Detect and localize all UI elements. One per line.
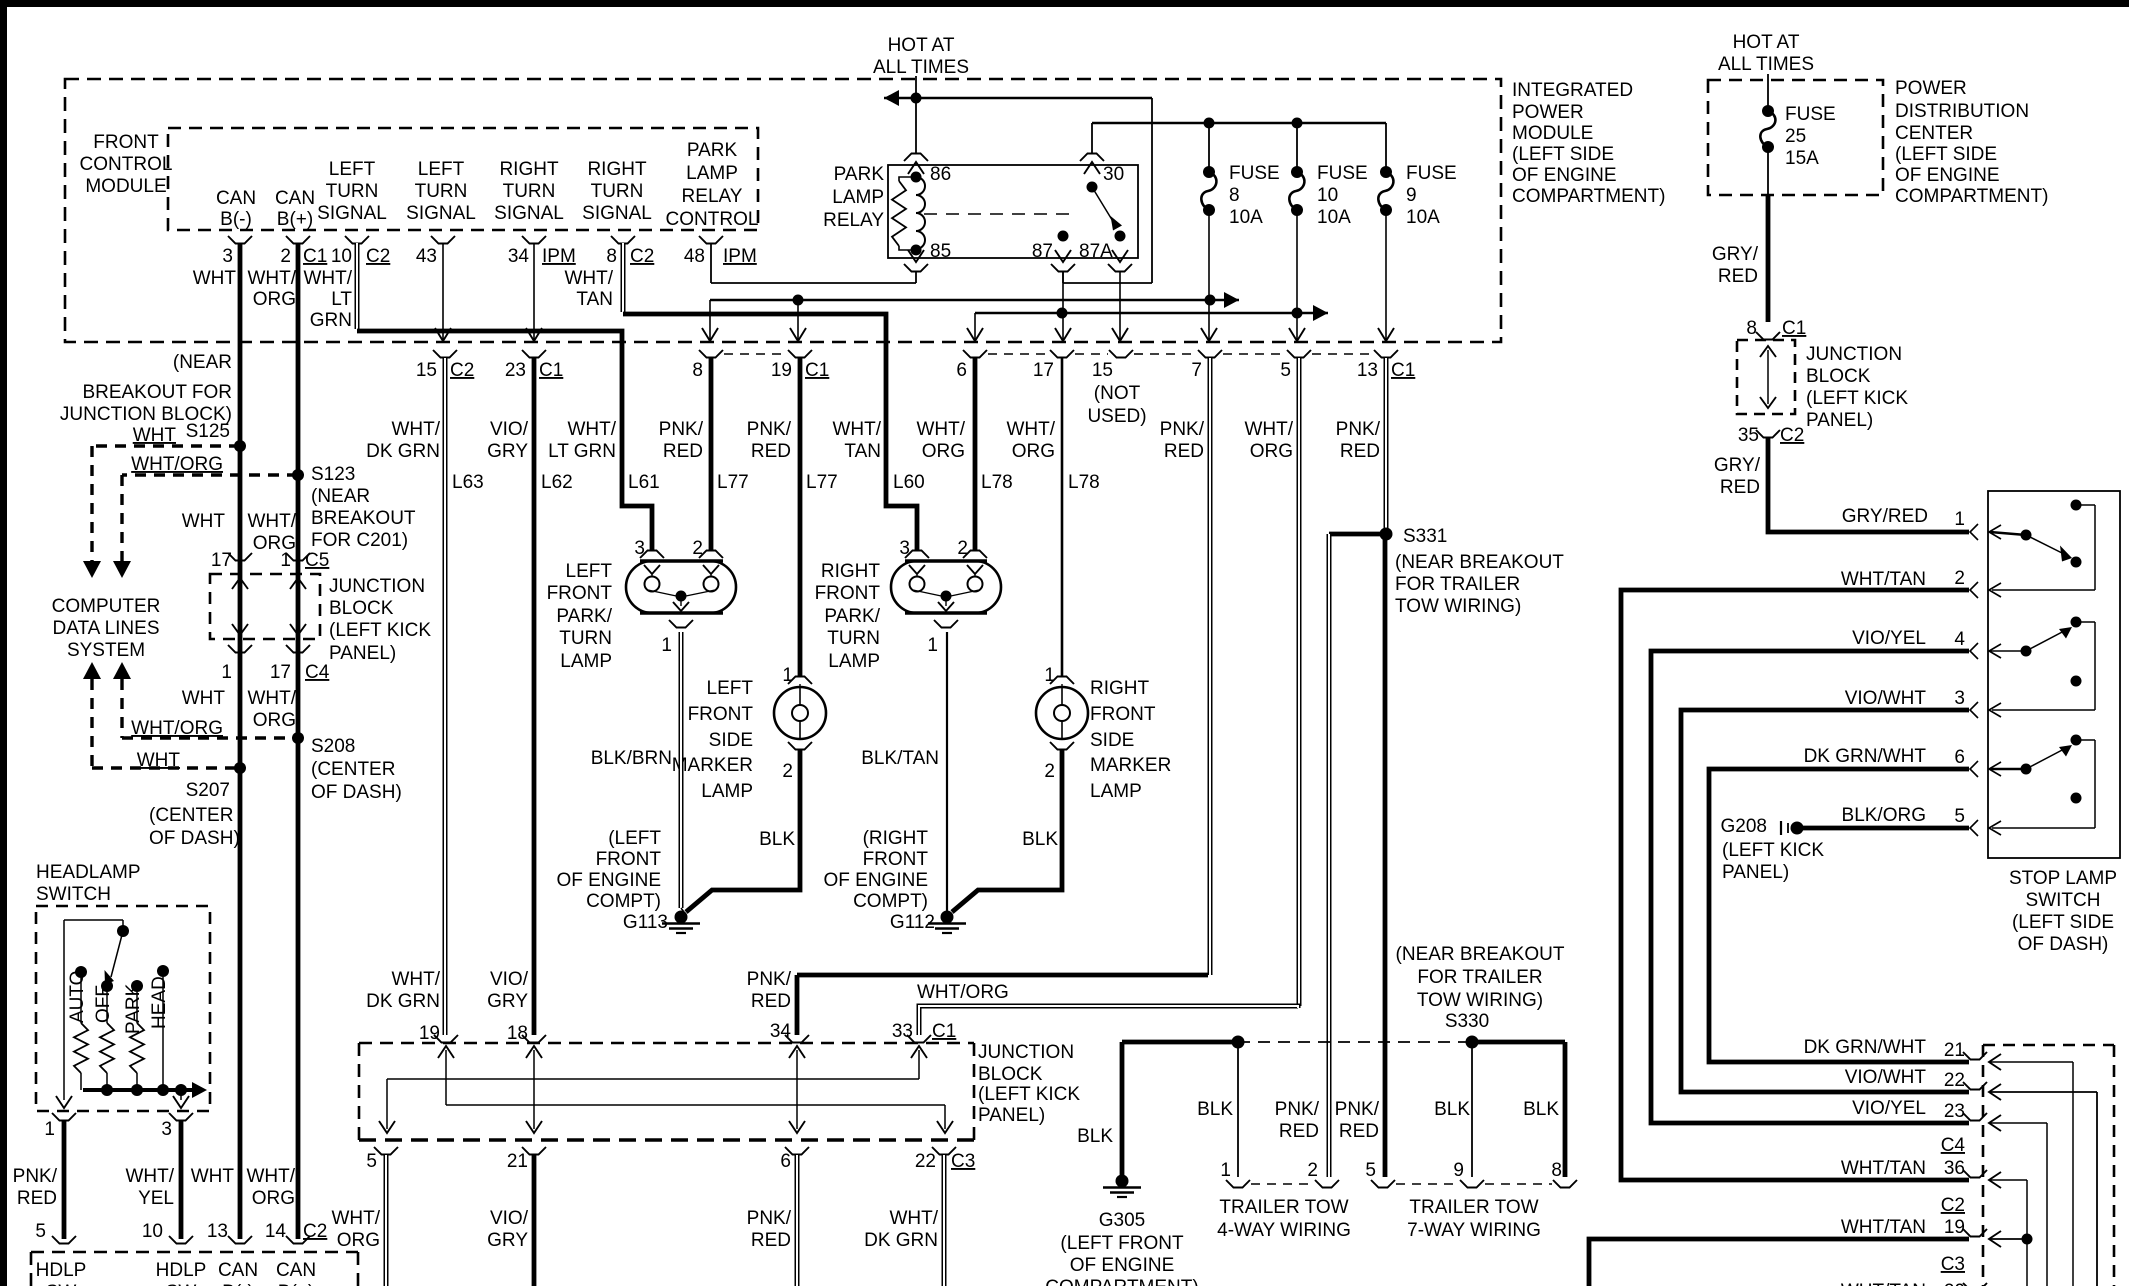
svg-text:19: 19 bbox=[419, 1023, 440, 1044]
svg-text:WHT/: WHT/ bbox=[916, 419, 965, 440]
svg-text:3: 3 bbox=[161, 1119, 172, 1140]
stop switch group2 bbox=[1990, 617, 2095, 711]
rear pin 20 bbox=[1944, 1281, 1987, 1286]
svg-text:13: 13 bbox=[1357, 360, 1378, 381]
svg-text:15: 15 bbox=[1092, 360, 1113, 381]
svg-text:G112: G112 bbox=[890, 912, 935, 933]
svg-text:WHT/ORG: WHT/ORG bbox=[917, 982, 1009, 1003]
svg-text:HOT AT: HOT AT bbox=[1733, 32, 1800, 53]
svg-text:34: 34 bbox=[508, 246, 530, 267]
label L60 at 893 bbox=[893, 472, 925, 493]
svg-text:C1: C1 bbox=[805, 360, 829, 381]
svg-text:FUSE: FUSE bbox=[1229, 163, 1280, 184]
svg-text:WHT: WHT bbox=[182, 511, 226, 532]
svg-text:HEAD: HEAD bbox=[149, 976, 170, 1029]
label COMPUTER DATA LINES SYSTEM bbox=[52, 596, 161, 661]
svg-text:(RIGHT: (RIGHT bbox=[863, 828, 929, 849]
svg-text:C4: C4 bbox=[1941, 1135, 1966, 1156]
JB bottom pin 22 C3 bbox=[915, 1147, 975, 1172]
IPM lower pin 6 bbox=[956, 350, 987, 381]
rear pin 36 bbox=[1944, 1158, 2027, 1286]
svg-text:L61: L61 bbox=[628, 472, 660, 493]
svg-text:COMPUTER: COMPUTER bbox=[52, 596, 161, 617]
svg-text:2: 2 bbox=[1044, 761, 1055, 782]
svg-text:G113: G113 bbox=[623, 912, 668, 933]
relay pin 30 bbox=[1084, 162, 1124, 193]
wire WHT/DK GRN L63 bbox=[443, 358, 448, 1035]
relay connector top bbox=[904, 154, 928, 162]
label WHT/LT GRN pin10 bbox=[303, 268, 352, 331]
node y300 fuse8 bbox=[1205, 295, 1216, 306]
svg-text:8: 8 bbox=[1746, 318, 1757, 339]
svg-text:1: 1 bbox=[782, 665, 793, 686]
svg-text:BLK: BLK bbox=[1197, 1099, 1233, 1120]
wire fuse9 to pin13 bbox=[1378, 210, 1394, 341]
svg-text:DK GRN/WHT: DK GRN/WHT bbox=[1804, 1037, 1927, 1058]
svg-text:FRONT: FRONT bbox=[688, 704, 754, 725]
svg-text:22: 22 bbox=[915, 1151, 936, 1172]
svg-text:5: 5 bbox=[1280, 360, 1291, 381]
svg-text:87A: 87A bbox=[1079, 241, 1113, 262]
svg-text:RIGHT: RIGHT bbox=[587, 159, 647, 180]
wire CAN B(+) WHT/ORG bbox=[296, 243, 301, 1239]
svg-text:C2: C2 bbox=[630, 246, 654, 267]
svg-text:RED: RED bbox=[663, 441, 703, 462]
dashed data line to S207 bbox=[83, 662, 240, 768]
svg-text:RED: RED bbox=[751, 991, 791, 1012]
splice S123 bbox=[292, 464, 355, 485]
svg-text:ORG: ORG bbox=[253, 533, 296, 554]
svg-text:LAMP: LAMP bbox=[686, 163, 738, 184]
label L77 at 717 bbox=[717, 472, 749, 493]
svg-text:C2: C2 bbox=[366, 246, 390, 267]
headlamp switch blade bbox=[105, 931, 124, 985]
svg-text:FUSE: FUSE bbox=[1406, 163, 1457, 184]
svg-text:FOR TRAILER: FOR TRAILER bbox=[1417, 967, 1542, 988]
svg-text:6: 6 bbox=[780, 1151, 791, 1172]
wire BLK left marker to G113 bbox=[686, 749, 800, 912]
svg-text:GRY/: GRY/ bbox=[1714, 455, 1761, 476]
svg-text:WHT/TAN: WHT/TAN bbox=[1841, 569, 1926, 590]
relay coil bbox=[892, 172, 925, 256]
svg-text:BLK: BLK bbox=[1077, 1126, 1113, 1147]
svg-text:STOP LAMP: STOP LAMP bbox=[2009, 868, 2117, 889]
JB path 18 to 21 bbox=[526, 1046, 542, 1133]
svg-text:RIGHT: RIGHT bbox=[1090, 678, 1150, 699]
wire fuse25 to C1 bbox=[1767, 147, 1769, 322]
svg-text:BLOCK: BLOCK bbox=[1806, 366, 1871, 387]
wire WHT/ORG L78 marker bbox=[1061, 358, 1064, 677]
svg-text:WHT/: WHT/ bbox=[331, 1208, 380, 1229]
svg-text:OF ENGINE: OF ENGINE bbox=[556, 870, 661, 891]
label NOT USED bbox=[1087, 383, 1146, 427]
svg-text:DK GRN: DK GRN bbox=[864, 1230, 938, 1251]
svg-text:(LEFT KICK: (LEFT KICK bbox=[329, 620, 431, 641]
JB bottom pin 6 bbox=[780, 1147, 809, 1172]
svg-text:2: 2 bbox=[782, 761, 793, 782]
lamp LEFT FRONT SIDE MARKER bbox=[774, 665, 826, 782]
wire WHT/ORG pin5 bbox=[1297, 358, 1302, 1006]
label WHT/ORG JB33 bbox=[917, 982, 1009, 1003]
wire PNK/RED pin7 bbox=[1208, 358, 1213, 975]
svg-text:86: 86 bbox=[930, 164, 951, 185]
junction block right arrow bbox=[1760, 346, 1776, 408]
svg-text:C3: C3 bbox=[951, 1151, 975, 1172]
wire park lamp relay control 48-85 bbox=[711, 243, 916, 283]
svg-text:RED: RED bbox=[1718, 266, 1758, 287]
svg-text:RED: RED bbox=[1164, 441, 1204, 462]
svg-text:6: 6 bbox=[1954, 747, 1965, 768]
svg-text:CONTROL: CONTROL bbox=[80, 154, 173, 175]
svg-text:WHT/: WHT/ bbox=[391, 969, 440, 990]
label TRAILER TOW 4-WAY WIRING bbox=[1217, 1197, 1351, 1241]
junction block C5 pin 17 bbox=[211, 550, 252, 571]
svg-text:DK GRN: DK GRN bbox=[366, 441, 440, 462]
svg-text:5: 5 bbox=[1954, 806, 1965, 827]
relay pin 87A bbox=[1079, 231, 1128, 263]
label PNK/RED 7way5 bbox=[1335, 1099, 1380, 1142]
JB path 34 to 6 bbox=[789, 1046, 805, 1133]
wire VIO/GRY below JB21 bbox=[532, 1155, 537, 1286]
svg-text:23: 23 bbox=[505, 360, 526, 381]
label VIO/YEL 23 bbox=[1852, 1098, 1926, 1119]
label LEFT TURN SIGNAL 1 bbox=[317, 159, 387, 224]
label RIGHT FRONT PARK/TURN LAMP bbox=[815, 561, 881, 672]
svg-text:10A: 10A bbox=[1229, 207, 1263, 228]
svg-text:LAMP: LAMP bbox=[1090, 781, 1142, 802]
svg-text:(LEFT SIDE: (LEFT SIDE bbox=[1895, 144, 1997, 165]
label BLK/BRN bbox=[591, 748, 672, 769]
svg-text:2: 2 bbox=[280, 246, 291, 267]
label HEADLAMP SWITCH bbox=[36, 862, 141, 905]
svg-text:2: 2 bbox=[1954, 568, 1965, 589]
svg-text:TRAILER TOW: TRAILER TOW bbox=[1219, 1197, 1348, 1218]
wire hot feed to relay 86 bbox=[915, 76, 917, 154]
IPM lower pin 19 C1 bbox=[771, 350, 829, 381]
label PNK/RED at 791 bbox=[747, 419, 792, 462]
svg-text:PARK/: PARK/ bbox=[824, 606, 880, 627]
label G208 LEFT KICK PANEL bbox=[1722, 840, 1824, 883]
label GRY/RED lower bbox=[1714, 455, 1761, 498]
rear pin 21 bbox=[1944, 1040, 2073, 1286]
junction block bottom pin 34 bbox=[770, 1021, 809, 1043]
label WHT S125 bbox=[133, 425, 177, 446]
trailer 7way pin 8 bbox=[1551, 1160, 1577, 1188]
ground G305 bbox=[1045, 1175, 1198, 1286]
label VIO/GRY JB21 bbox=[487, 1208, 529, 1251]
svg-text:WHT: WHT bbox=[133, 425, 177, 446]
svg-text:LAMP: LAMP bbox=[828, 651, 880, 672]
label WHT/ORG pin2 bbox=[247, 268, 296, 310]
svg-text:2: 2 bbox=[1307, 1160, 1318, 1181]
label PARK LAMP RELAY bbox=[823, 164, 884, 231]
headlamp contact HEAD bbox=[149, 965, 170, 1090]
svg-text:L63: L63 bbox=[452, 472, 484, 493]
svg-text:43: 43 bbox=[416, 246, 437, 267]
bottom module pin 5 bbox=[35, 1221, 76, 1244]
label WHT/ORG JB5 bbox=[331, 1208, 380, 1251]
label TRAILER TOW 7-WAY WIRING bbox=[1407, 1197, 1541, 1241]
label LEFT FRONT PARK/TURN LAMP bbox=[547, 561, 613, 672]
label WHT/DK GRN JB19 bbox=[366, 969, 441, 1012]
stop switch pin 1 bbox=[1954, 509, 2001, 540]
svg-text:14: 14 bbox=[265, 1221, 287, 1242]
svg-text:MARKER: MARKER bbox=[1090, 755, 1171, 776]
label PNK/RED hdlp bbox=[13, 1166, 58, 1209]
wire hot into fuse 25 bbox=[1767, 74, 1769, 111]
svg-text:PARK: PARK bbox=[687, 140, 738, 161]
svg-text:SYSTEM: SYSTEM bbox=[67, 640, 145, 661]
svg-text:LEFT: LEFT bbox=[566, 561, 613, 582]
svg-text:L77: L77 bbox=[717, 472, 749, 493]
wire PNK/RED headlamp bbox=[62, 1121, 67, 1239]
stop switch pin 2 bbox=[1954, 568, 2001, 598]
wire VIO/GRY L62 bbox=[532, 358, 537, 1035]
svg-text:C1: C1 bbox=[932, 1021, 956, 1042]
headlamp contact PARK bbox=[123, 980, 144, 1090]
svg-text:10: 10 bbox=[331, 246, 352, 267]
wire GRY/RED label1 bbox=[1842, 506, 1928, 527]
IPM lower pin 5 bbox=[1280, 350, 1311, 381]
svg-text:(LEFT SIDE: (LEFT SIDE bbox=[1512, 144, 1614, 165]
svg-text:BLK: BLK bbox=[1523, 1099, 1559, 1120]
svg-text:COMPT): COMPT) bbox=[853, 891, 928, 912]
svg-text:COMPARTMENT): COMPARTMENT) bbox=[1512, 186, 1665, 207]
svg-text:WHT: WHT bbox=[191, 1166, 235, 1187]
wire BLK/TAN lamp2 to G112 bbox=[946, 632, 948, 912]
svg-text:WHT/: WHT/ bbox=[246, 1166, 295, 1187]
svg-text:GRY/RED: GRY/RED bbox=[1842, 506, 1928, 527]
fuse 10 10A bbox=[1289, 123, 1367, 228]
headlamp contact OFF bbox=[93, 980, 114, 1090]
node S330 right bbox=[1466, 1036, 1479, 1049]
svg-text:IPM: IPM bbox=[723, 246, 757, 267]
fuse 8 10A bbox=[1201, 123, 1279, 228]
svg-text:17: 17 bbox=[1033, 360, 1054, 381]
wire CAN B(-) WHT bbox=[238, 243, 243, 1239]
label DK GRN/WHT pin6 bbox=[1804, 746, 1927, 767]
svg-text:GRN: GRN bbox=[310, 310, 352, 331]
svg-text:SIGNAL: SIGNAL bbox=[582, 203, 652, 224]
svg-text:WHT/TAN: WHT/TAN bbox=[1841, 1217, 1926, 1238]
relay connector 30 top bbox=[1080, 154, 1104, 162]
label CAN B(-) bbox=[216, 188, 256, 230]
svg-text:COMPARTMENT): COMPARTMENT) bbox=[1895, 186, 2048, 207]
label C3 rear bbox=[1941, 1254, 1965, 1275]
ground G113 bbox=[623, 911, 700, 934]
label HDLP SW 1 bbox=[36, 1260, 87, 1286]
svg-text:RED: RED bbox=[751, 1230, 791, 1251]
label PNK/RED JB6 bbox=[747, 1208, 792, 1251]
label BLK left bbox=[759, 829, 795, 850]
relay switch blade bbox=[1092, 187, 1122, 231]
wire fuse bus y123 bbox=[1092, 123, 1386, 154]
svg-text:(CENTER: (CENTER bbox=[311, 759, 395, 780]
svg-text:PARK: PARK bbox=[123, 983, 144, 1034]
label C4 bbox=[1941, 1135, 1966, 1156]
svg-text:8: 8 bbox=[1229, 185, 1240, 206]
svg-text:(LEFT KICK: (LEFT KICK bbox=[1806, 388, 1908, 409]
svg-text:(NOT: (NOT bbox=[1094, 383, 1141, 404]
rear pin 23 bbox=[1944, 1101, 2047, 1286]
wire left turn signal 43 bbox=[435, 244, 451, 341]
svg-text:S123: S123 bbox=[311, 464, 355, 485]
svg-text:WHT/: WHT/ bbox=[247, 268, 296, 289]
svg-text:PANEL): PANEL) bbox=[978, 1105, 1045, 1126]
IPM lower pin 7 bbox=[1191, 350, 1222, 381]
svg-text:USED): USED) bbox=[1087, 406, 1146, 427]
svg-text:(LEFT FRONT: (LEFT FRONT bbox=[1060, 1233, 1184, 1254]
wire BLK ground bus bbox=[1122, 1040, 1565, 1045]
svg-text:YEL: YEL bbox=[138, 1188, 174, 1209]
svg-text:PNK/: PNK/ bbox=[747, 419, 792, 440]
label CAN B(+) bbox=[275, 188, 315, 230]
stop switch group3 bbox=[1990, 735, 2095, 829]
label JUNCTION BLOCK LEFT KICK PANEL mid bbox=[329, 576, 431, 664]
svg-text:1: 1 bbox=[927, 635, 938, 656]
FCM pin 2 connector C1 bbox=[280, 236, 327, 267]
label VIO/WHT 22 bbox=[1845, 1067, 1927, 1088]
label VIO/GRY at 528 bbox=[487, 419, 529, 462]
label WHT/TAN at 881 bbox=[832, 419, 881, 462]
wire PNK/RED L77 marker bbox=[798, 358, 803, 677]
svg-text:RED: RED bbox=[751, 441, 791, 462]
label L78 at 1068 bbox=[1068, 472, 1100, 493]
svg-text:PNK/: PNK/ bbox=[1160, 419, 1205, 440]
svg-text:TURN: TURN bbox=[503, 181, 556, 202]
ground G208 bbox=[1721, 816, 1804, 837]
IPM lower pin 17 bbox=[1033, 350, 1074, 381]
svg-text:LT GRN: LT GRN bbox=[548, 441, 616, 462]
svg-text:BLK: BLK bbox=[1434, 1099, 1470, 1120]
label POWER DISTRIBUTION CENTER bbox=[1895, 78, 2048, 207]
label L62 at 541 bbox=[541, 472, 573, 493]
svg-text:C1: C1 bbox=[539, 360, 563, 381]
svg-text:LEFT: LEFT bbox=[329, 159, 376, 180]
svg-text:S331: S331 bbox=[1403, 526, 1447, 547]
svg-text:22: 22 bbox=[1944, 1070, 1965, 1091]
FCM pin 10 connector C2 bbox=[331, 236, 390, 267]
svg-text:RED: RED bbox=[1340, 441, 1380, 462]
svg-text:VIO/WHT: VIO/WHT bbox=[1845, 688, 1927, 709]
svg-text:17: 17 bbox=[211, 550, 232, 571]
svg-text:ORG: ORG bbox=[1012, 441, 1055, 462]
svg-text:8: 8 bbox=[1551, 1160, 1562, 1181]
label BLK 4way bbox=[1197, 1099, 1233, 1120]
svg-text:DISTRIBUTION: DISTRIBUTION bbox=[1895, 101, 2029, 122]
svg-text:10: 10 bbox=[142, 1221, 163, 1242]
junction block bottom pin 33 C1 bbox=[892, 1021, 956, 1043]
FCM pin 8 connector C2 bbox=[606, 236, 654, 267]
svg-text:SW: SW bbox=[166, 1282, 197, 1286]
label S330 breakout bbox=[1396, 944, 1565, 1032]
svg-text:DK GRN: DK GRN bbox=[366, 991, 440, 1012]
park lamp relay box bbox=[888, 165, 1138, 258]
stop switch pin 5 bbox=[1954, 806, 2001, 836]
svg-text:FRONT: FRONT bbox=[815, 583, 881, 604]
dashed data line from S125 bbox=[83, 446, 240, 578]
svg-text:PANEL): PANEL) bbox=[329, 643, 396, 664]
fuse 9 10A bbox=[1378, 123, 1456, 228]
label WHT/ORG at 1055 bbox=[1006, 419, 1055, 462]
label VIO/YEL pin4 bbox=[1852, 628, 1926, 649]
label NEAR BREAKOUT FOR C201 bbox=[311, 486, 416, 551]
trailer 7way pin 5 bbox=[1365, 1160, 1395, 1188]
svg-text:CAN: CAN bbox=[276, 1260, 316, 1281]
svg-text:WHT: WHT bbox=[193, 268, 237, 289]
splice S208 bbox=[292, 732, 402, 803]
junction block C5 pin 1 bbox=[280, 550, 329, 571]
svg-text:RELAY: RELAY bbox=[682, 186, 743, 207]
svg-text:RIGHT: RIGHT bbox=[499, 159, 559, 180]
label RIGHT TURN SIGNAL 1 bbox=[494, 159, 564, 224]
wire BLK/ORG pin5 bbox=[1803, 826, 1969, 831]
label L63 at 452 bbox=[452, 472, 484, 493]
label PNK/RED 4way2 bbox=[1275, 1099, 1320, 1142]
wire riser to relay 87 feed bbox=[1063, 98, 1152, 283]
svg-text:2: 2 bbox=[957, 538, 968, 559]
svg-text:SWITCH: SWITCH bbox=[36, 884, 111, 905]
svg-text:OF ENGINE: OF ENGINE bbox=[1895, 165, 2000, 186]
svg-text:HDLP: HDLP bbox=[156, 1260, 207, 1281]
trailer 4way pin 2 bbox=[1307, 1160, 1339, 1188]
relay internal dashed link bbox=[924, 213, 1078, 215]
svg-text:G305: G305 bbox=[1099, 1210, 1145, 1231]
svg-text:COMPARTMENT): COMPARTMENT) bbox=[1045, 1277, 1198, 1286]
svg-text:B(+): B(+) bbox=[278, 1282, 314, 1286]
wire relay 87A to IPM pin 15 bbox=[1112, 271, 1128, 341]
svg-text:5: 5 bbox=[35, 1221, 46, 1242]
IPM lower pin 8 bbox=[692, 350, 723, 381]
svg-text:ORG: ORG bbox=[337, 1230, 380, 1251]
label STOP LAMP SWITCH bbox=[2009, 868, 2117, 955]
svg-text:CENTER: CENTER bbox=[1895, 123, 1973, 144]
svg-text:SIGNAL: SIGNAL bbox=[317, 203, 387, 224]
label L78 at 981 bbox=[981, 472, 1013, 493]
label WHT/LT GRN at 616 bbox=[548, 419, 617, 462]
svg-text:10: 10 bbox=[1317, 185, 1338, 206]
bottom module pin 14 C2 bbox=[265, 1221, 327, 1244]
label WHT/TAN 19 bbox=[1841, 1217, 1926, 1238]
relay pin 85 bbox=[908, 241, 951, 262]
IPM lower pin 15 C2 bbox=[416, 350, 474, 381]
wire BLK to G305 bbox=[1120, 1042, 1125, 1176]
label DK GRN/WHT 21 bbox=[1804, 1037, 1927, 1058]
svg-text:SIDE: SIDE bbox=[709, 730, 753, 751]
svg-text:PANEL): PANEL) bbox=[1806, 410, 1873, 431]
svg-text:1: 1 bbox=[1954, 509, 1965, 530]
svg-text:FRONT: FRONT bbox=[93, 132, 159, 153]
svg-text:PNK/: PNK/ bbox=[747, 1208, 792, 1229]
wire BLK right marker to G112 bbox=[952, 749, 1062, 912]
svg-text:CAN: CAN bbox=[275, 188, 315, 209]
svg-text:OF ENGINE: OF ENGINE bbox=[823, 870, 928, 891]
svg-text:7-WAY WIRING: 7-WAY WIRING bbox=[1407, 1220, 1541, 1241]
svg-text:PARK: PARK bbox=[834, 164, 885, 185]
wire WHT/DK GRN below JB22 bbox=[942, 1155, 947, 1286]
wire PNK/RED L77 left bbox=[709, 358, 714, 551]
wire WHT/ORG L78 right lamp bbox=[973, 358, 978, 551]
svg-text:4-WAY WIRING: 4-WAY WIRING bbox=[1217, 1220, 1351, 1241]
svg-text:19: 19 bbox=[1944, 1217, 1965, 1238]
wire right turn WHT/TAN L60 bbox=[623, 243, 917, 551]
label INTEGRATED POWER MODULE bbox=[1512, 80, 1665, 207]
svg-text:PNK/: PNK/ bbox=[13, 1166, 58, 1187]
svg-text:(LEFT KICK: (LEFT KICK bbox=[978, 1084, 1080, 1105]
svg-text:TOW WIRING): TOW WIRING) bbox=[1417, 990, 1543, 1011]
svg-text:RED: RED bbox=[17, 1188, 57, 1209]
label WHT/ORG S123 bbox=[131, 454, 223, 475]
